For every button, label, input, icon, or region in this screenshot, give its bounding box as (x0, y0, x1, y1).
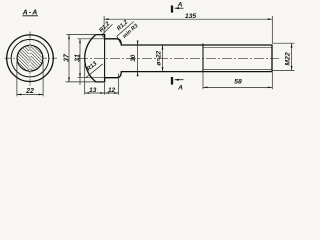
dimension M22 (273, 43, 295, 70)
dimension 30 (137, 41, 139, 77)
section cut marker A bottom (172, 77, 184, 91)
svg-text:13: 13 (89, 87, 97, 94)
label R13 (86, 61, 103, 78)
svg-text:31: 31 (75, 54, 82, 62)
dimension 58 (203, 72, 272, 90)
svg-text:ø≈22: ø≈22 (155, 50, 162, 65)
svg-text:12: 12 (108, 87, 116, 94)
svg-text:A-A: A-A (22, 9, 39, 16)
shank cut circle hatched (17, 44, 43, 72)
dimension d=22 (162, 45, 164, 72)
thread boundary line (202, 44, 204, 72)
thread root lines (203, 46, 272, 48)
section title A-A (22, 9, 39, 16)
head outer circle (section) (7, 35, 54, 82)
svg-text:37: 37 (64, 53, 71, 62)
dimension 37 (66, 35, 96, 82)
svg-text:R13: R13 (86, 61, 99, 73)
head step face edge (104, 35, 106, 82)
section cut marker A top (172, 1, 184, 12)
svg-text:22: 22 (25, 88, 34, 95)
svg-text:A: A (177, 1, 183, 8)
svg-text:30: 30 (130, 54, 137, 62)
label R1,2 min R3 (116, 19, 139, 44)
label R1,2 left (98, 20, 112, 38)
dimension 22 (17, 61, 43, 96)
svg-text:58: 58 (234, 78, 242, 85)
dimension 13 / 12 (85, 60, 119, 95)
svg-text:A: A (177, 84, 183, 91)
bolt axis centerline (78, 57, 279, 59)
node section center lines (5, 32, 58, 86)
dimension 31 (78, 39, 106, 85)
svg-text:M22: M22 (285, 52, 292, 65)
head inner circle (section) (11, 39, 49, 77)
svg-text:135: 135 (185, 13, 197, 20)
bolt outline side view (85, 35, 272, 82)
dimension 135 (104, 16, 272, 44)
